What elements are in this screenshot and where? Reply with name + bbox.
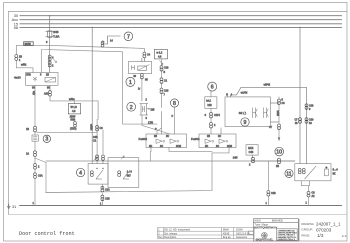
ground rail 31 (20, 205, 342, 207)
connector 14 tap on bus58 drop (101, 42, 104, 47)
svg-text:1r: 1r (138, 88, 140, 91)
svg-text:2C: 2C (166, 135, 169, 138)
connector mid drop (102, 155, 105, 160)
ground symbol and label 31 (7, 204, 11, 209)
svg-text:4: 4 (79, 171, 82, 177)
wire C16 column (161, 60, 163, 134)
svg-text:Description: Description (164, 236, 177, 239)
balloon 7 (124, 32, 133, 41)
wire stitch to door module (37, 131, 98, 133)
svg-text:10: 10 (276, 150, 282, 156)
svg-text:6: 6 (211, 85, 214, 91)
svg-text:1A: 1A (26, 153, 29, 156)
connector C1 mid (160, 78, 163, 84)
svg-text:w1/4d: w1/4d (241, 92, 248, 95)
svg-text:w 1.2: w 1.2 (157, 52, 163, 55)
wire lock unit right pins to C3/C7 column (270, 97, 279, 141)
wire lock unit supply horizontal (231, 87, 307, 163)
connector C3 right column (278, 99, 281, 105)
svg-text:3D: 3D (149, 145, 152, 148)
arrow mark at C4 (52, 58, 57, 63)
bus 58 (20, 26, 342, 28)
circuit 2 switch device (140, 104, 151, 116)
relay K1 box (129, 62, 152, 74)
svg-text:S2 ( ): S2 ( ) (239, 111, 246, 115)
connector C7 right column (278, 124, 281, 130)
wire color label w/26 vertical (276, 111, 280, 117)
wire long row to door switches and lock switch (46, 161, 295, 193)
svg-text:C16: C16 (164, 90, 169, 93)
svg-text:2: 2 (130, 105, 133, 111)
svg-text:58: 58 (14, 26, 18, 30)
splice note box W 1.5 (68, 104, 80, 114)
connector C7-16 on bus58 drop (299, 118, 302, 124)
svg-text:1k5: 1k5 (151, 109, 156, 112)
svg-text:DRAWING: DRAWING (301, 222, 313, 226)
svg-text:KEAE: KEAE (223, 232, 230, 235)
connector C2 under (210, 122, 213, 128)
svg-text:9: 9 (244, 120, 247, 126)
svg-text:Door control front: Door control front (19, 231, 75, 237)
switch S2 lever (123, 170, 130, 179)
wire to balloon 7 (101, 36, 121, 44)
module B2 opamp triangle 2 (219, 139, 228, 143)
lock switch right contact (324, 167, 328, 176)
svg-text:3CM: 3CM (227, 145, 232, 148)
connector pair mid low (34, 164, 37, 170)
door switch box S2 (108, 158, 139, 188)
connector C1B right labels (267, 191, 270, 197)
svg-text:31: 31 (12, 205, 16, 209)
svg-text:5k7: 5k7 (127, 175, 132, 178)
bus 15 (20, 23, 342, 25)
svg-text:2B: 2B (207, 135, 210, 138)
svg-text:A-3: A-3 (342, 234, 347, 238)
note box w 1.2 4.8 above C16 (154, 49, 167, 59)
balloon 9 (241, 118, 249, 126)
balloon 11 (285, 169, 293, 177)
connector C1F4 (210, 112, 213, 118)
connector under splice note (74, 122, 77, 127)
wire bus58 long vertical to door switch (91, 27, 93, 163)
connector C1A under switches (101, 186, 104, 192)
wire switch1 ground drop (101, 184, 103, 205)
module B1 opamp triangle 2 (170, 139, 179, 143)
svg-text:2B: 2B (46, 73, 49, 76)
connector C16 top (160, 66, 163, 72)
balloon 6 (208, 82, 217, 91)
wire color label w/y vertical (32, 91, 36, 96)
svg-text:2B: 2B (154, 135, 157, 138)
control module A box 4a30 (26, 72, 58, 85)
svg-text:w/26: w/26 (276, 111, 280, 117)
wire relay out to circuit 2 switch (141, 78, 143, 101)
svg-text:Eng.ap: Eng.ap (223, 236, 231, 239)
lock unit switch element 1 (253, 108, 258, 119)
svg-text:1/3: 1/3 (317, 233, 324, 238)
svg-text:3C: 3C (160, 145, 163, 148)
wire fuse drop from bus 30 (49, 16, 51, 73)
balloon 2 (127, 102, 136, 111)
lock unit switch element 2 (264, 108, 269, 119)
module B2 opamp triangle 1 (205, 139, 214, 143)
svg-text:242007_1_1: 242007_1_1 (316, 222, 341, 227)
arrow head end of C7 drop (278, 138, 281, 141)
connector A on 86 drop (49, 91, 52, 97)
svg-text:070203: 070203 (316, 227, 332, 232)
connector C6 column upper (96, 125, 99, 131)
svg-text:w/BN: w/BN (90, 124, 94, 130)
svg-text:~BKBPATUAEL: ~BKBPATUAEL (254, 238, 273, 242)
wire enclosure top edge (41, 49, 157, 124)
note box tot.1 k1B (205, 97, 217, 109)
balloon 10 (275, 147, 284, 156)
switch S1 lever (96, 170, 103, 179)
module B1 box Fa302 (146, 134, 187, 148)
relay contact (132, 65, 135, 69)
svg-text:tot.1: tot.1 (206, 100, 211, 103)
wire switch feed drops (97, 119, 103, 163)
svg-text:2B: 2B (276, 165, 279, 168)
svg-text:7.5A: 7.5A (53, 35, 59, 39)
module A coil (45, 78, 56, 83)
svg-text:1→0: 1→0 (127, 171, 133, 174)
balloon 3 (43, 135, 50, 142)
svg-text:C1B: C1B (271, 192, 276, 195)
svg-text:PAGE: PAGE (301, 234, 309, 238)
lock switch left connector a (298, 168, 301, 173)
connector C2 on fuse drop (48, 61, 51, 67)
lock unit box (225, 97, 270, 127)
door switch box S1 (88, 164, 108, 185)
svg-text:2C: 2C (218, 135, 221, 138)
wire label box BK/W (24, 42, 34, 46)
svg-text:8: 8 (173, 101, 176, 107)
svg-text:A10: A10 (44, 93, 49, 96)
drawing frame left (8, 12, 10, 215)
svg-text:5→0: 5→0 (333, 169, 339, 172)
wire left feed from node at y45 (16, 45, 49, 54)
logo emblem (262, 233, 268, 239)
svg-text:W 1.5: W 1.5 (71, 106, 78, 109)
relay bottom pin connector (141, 74, 144, 79)
switch S2 connector (118, 171, 121, 177)
lock switch lever (305, 166, 317, 179)
svg-text:C1B: C1B (105, 198, 110, 201)
svg-text:MAM: MAM (223, 229, 229, 232)
svg-text:MAX: MAX (248, 147, 254, 150)
svg-text:HIGH: HIGH (255, 220, 261, 223)
wire splice note drop (74, 101, 76, 104)
svg-text:B7B: B7B (26, 73, 31, 76)
svg-text:4a30: 4a30 (14, 76, 21, 80)
svg-text:Fa302: Fa302 (139, 137, 148, 141)
balloon 8 (170, 99, 178, 107)
wire C4 to relay (143, 58, 145, 62)
svg-text:3C: 3C (216, 145, 219, 148)
module A transistor symbol (33, 77, 37, 82)
svg-text:C1A: C1A (105, 189, 110, 192)
inline device box circuit 3 (32, 135, 38, 141)
node junction on bus 58 (92, 27, 93, 28)
svg-text:C16: C16 (164, 67, 169, 70)
wire lock switch box bottom U (301, 181, 309, 206)
svg-text:1B: 1B (26, 128, 29, 131)
svg-text:w/Bk: w/Bk (21, 64, 27, 67)
svg-text:3CM: 3CM (176, 145, 181, 148)
svg-text:(TBD): (TBD) (70, 128, 77, 131)
connector pair 1B on left column (34, 126, 37, 132)
svg-text:k1B: k1B (208, 104, 213, 107)
connector C5 ground drop (307, 191, 310, 197)
svg-text:14/9: 14/9 (233, 157, 238, 160)
relay coil with diagonal (138, 65, 150, 71)
wire bus58 right vertical (299, 27, 301, 163)
connector C20 (305, 118, 308, 124)
svg-text:7: 7 (127, 34, 130, 40)
connector C4 on fuse drop (48, 55, 51, 61)
connector 2B on long row (278, 158, 281, 164)
connector C18 (305, 104, 308, 110)
connector C1B under switches (101, 195, 104, 201)
connector C4 above relay (143, 52, 146, 58)
svg-text:w5/4d: w5/4d (264, 84, 271, 87)
wire lock unit pin 5 stub (227, 94, 229, 97)
svg-text:DN. L2. HD. Innspresset: DN. L2. HD. Innspresset (164, 229, 190, 232)
connector 2B left (15, 55, 18, 61)
bus Acc (20, 19, 342, 21)
svg-text:w/Gn: w/Gn (69, 98, 75, 101)
fuse 24B 7.5A (45, 31, 54, 37)
svg-text:24B: 24B (53, 30, 58, 34)
wire module A output 86 to w/Gn run (50, 85, 98, 119)
fine print block (278, 229, 298, 241)
svg-text:C1F4: C1F4 (214, 114, 221, 117)
connector under MAX box (252, 157, 255, 163)
drawing frame top (9, 11, 348, 13)
connector C16 low (160, 88, 163, 94)
relay top pin tick (141, 58, 143, 62)
svg-text:50M: 50M (71, 119, 76, 122)
svg-text:GROUP.: GROUP. (301, 228, 313, 232)
svg-text:5.KBLFRG TBLL X: 5.KBLFRG TBLL X (278, 239, 296, 241)
connector C1A low (34, 173, 37, 179)
svg-text:3D: 3D (205, 145, 208, 148)
title block outer box (253, 219, 299, 241)
node junction on bus 30 (49, 15, 50, 16)
switch S1 left connector (90, 171, 93, 177)
wire circle8 pin P to B1 (174, 108, 176, 135)
svg-text:Del. release: Del. release (164, 232, 177, 235)
svg-text:Fa302: Fa302 (191, 137, 200, 141)
bus 30 (20, 15, 342, 17)
note box MAX C4B (246, 145, 258, 155)
connector C1 column lower (96, 155, 99, 161)
wire circuit2 to B1 (142, 116, 170, 135)
title block side tab (248, 231, 253, 234)
svg-text:3: 3 (45, 137, 48, 143)
wire circle6 column to B2 (210, 91, 212, 134)
revision table (157, 228, 254, 239)
connector pair 1A below circuit 3 (34, 151, 37, 157)
svg-text:1: 1 (129, 80, 132, 86)
wire relay supply from fuse node to C4 (50, 45, 145, 52)
svg-text:JOHN: JOHN (236, 229, 243, 232)
switch S1 contact dots (96, 168, 97, 169)
svg-text:C1A: C1A (38, 175, 43, 178)
svg-text:BKB-MDS: BKB-MDS (272, 220, 283, 223)
wire B2 top pin from tot box (220, 128, 222, 134)
lock switch box (295, 164, 331, 181)
wire left column branch to switch row (35, 158, 46, 163)
module B1 opamp triangle 1 (156, 139, 165, 143)
wire color label w/BN vertical (90, 124, 94, 130)
wire w/Bk down-right into module A (16, 61, 33, 73)
wire B1 outputs to bottom bus (150, 148, 212, 162)
module B2 box Fa302 (199, 134, 236, 148)
arrow mark under note box (160, 61, 164, 65)
svg-text:Assessme: Assessme (236, 236, 248, 239)
wire module A output 30 down left column (34, 85, 36, 205)
arrow mark at switch S1 feed (94, 157, 97, 160)
node junction right on bus 58 (299, 27, 300, 28)
wire note box tap to long row (253, 155, 295, 161)
svg-text:17/B: 17/B (148, 121, 153, 124)
arrow mark at switch S2 feed (121, 156, 124, 159)
drawing frame bottom (9, 214, 348, 216)
wire bottom return from B2 (46, 145, 229, 192)
svg-text:11: 11 (286, 171, 291, 177)
svg-text:5K: 5K (333, 173, 336, 176)
svg-text:BK/W: BK/W (25, 43, 32, 46)
svg-text:C4B: C4B (249, 151, 254, 154)
balloon 1 (126, 77, 135, 86)
wire C1B ground drop (267, 161, 269, 206)
svg-text:MAITRQMBENKAV: MAITRQMBENKAV (254, 226, 277, 230)
balloon 4 (76, 168, 84, 176)
lock switch left connector b (302, 168, 305, 173)
